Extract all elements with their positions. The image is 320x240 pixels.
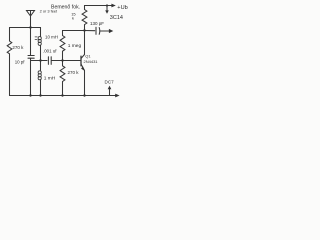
- svg-text:+Ub: +Ub: [117, 5, 127, 11]
- svg-text:1 meg: 1 meg: [68, 43, 82, 49]
- svg-text:3C14: 3C14: [110, 15, 123, 21]
- svg-text:DC7: DC7: [105, 79, 115, 84]
- svg-text:10 pf: 10 pf: [15, 59, 26, 64]
- svg-text:Q1: Q1: [85, 54, 91, 59]
- svg-text:1 mH: 1 mH: [44, 76, 56, 82]
- svg-text:k: k: [72, 16, 74, 21]
- svg-text:.001 uf: .001 uf: [43, 48, 57, 53]
- svg-text:2N4431: 2N4431: [84, 59, 99, 64]
- svg-text:270 k: 270 k: [68, 70, 80, 75]
- svg-text:2 or 3 feet: 2 or 3 feet: [40, 9, 58, 14]
- svg-text:270 k: 270 k: [12, 45, 24, 50]
- svg-text:10 mH: 10 mH: [45, 34, 58, 39]
- svg-text:130 pF: 130 pF: [90, 21, 104, 26]
